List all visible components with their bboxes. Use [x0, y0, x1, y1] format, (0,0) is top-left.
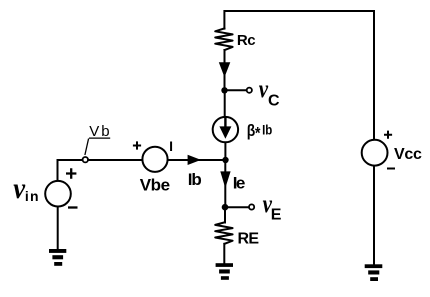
label beta*Ib [247, 121, 273, 143]
wire: Vin riser and base wire to Vbe [58, 160, 142, 181]
resistor Rc [215, 28, 232, 50]
Vcc plus sign [384, 131, 392, 139]
node Vb open circle [83, 157, 88, 162]
terminal VC open circle [247, 88, 252, 93]
resistor RE [215, 222, 232, 243]
wire: VE node stub to VE terminal [225, 206, 249, 208]
node at emitter junction dot [222, 157, 228, 163]
wire: Vcc bottom to ground [373, 167, 375, 265]
svg-text:Rc: Rc [237, 32, 255, 49]
voltage source Vin [45, 181, 71, 207]
wire: collector node stub to VC terminal [225, 89, 247, 91]
ground (emitter RE) [216, 263, 233, 280]
current source internal arrow shaft [224, 119, 226, 128]
svg-text:Ib: Ib [262, 121, 272, 137]
terminal VE open circle [249, 204, 254, 209]
wire: top rail from Rc top to Vcc branch [224, 11, 374, 29]
node VC junction dot [221, 87, 227, 93]
svg-text:Ie: Ie [233, 173, 245, 192]
current source internal arrowhead [219, 126, 231, 138]
leader line from Vb label to node [85, 139, 89, 156]
wire: collector node down to current source [224, 90, 226, 117]
wire: current source to emitter node [224, 142, 226, 160]
wire: RE to ground [223, 244, 225, 264]
svg-text:Ib: Ib [188, 170, 202, 189]
wire: Vbe to base node [169, 159, 226, 161]
wire: right rail down to Vcc [373, 11, 375, 139]
underline of Vb label [89, 137, 110, 139]
Vbe plus sign [133, 141, 141, 149]
svg-text:β: β [247, 122, 256, 141]
wire: VE node to RE [224, 207, 226, 222]
Vin minus sign [68, 206, 78, 208]
svg-text:RE: RE [238, 230, 260, 247]
current arrow Ib on base wire [188, 155, 201, 165]
ground (Vcc) [365, 264, 383, 281]
wire: Vin bottom lead to ground [57, 207, 59, 250]
svg-text:C: C [268, 92, 280, 109]
ground (Vin) [49, 249, 66, 266]
Vin plus sign [66, 168, 76, 178]
svg-text:Vbe: Vbe [140, 175, 170, 194]
Vcc minus sign [387, 168, 395, 170]
voltage source Vbe [142, 147, 167, 172]
current arrow Ie on emitter wire [220, 171, 230, 188]
wire: emitter node down to VE node [224, 160, 226, 205]
svg-text:v: v [13, 173, 25, 206]
wire: Rc to collector node [224, 50, 226, 90]
svg-text:Vb: Vb [89, 123, 111, 140]
svg-text:E: E [271, 206, 282, 223]
svg-text:Vcc: Vcc [394, 146, 422, 163]
current direction arrow below Rc [219, 62, 231, 77]
voltage source Vcc [362, 140, 388, 166]
current source beta*Ib [213, 117, 238, 142]
svg-text:I: I [169, 138, 173, 154]
svg-text:*: * [255, 124, 261, 143]
node VE junction dot [222, 204, 229, 211]
svg-text:in: in [25, 188, 40, 204]
